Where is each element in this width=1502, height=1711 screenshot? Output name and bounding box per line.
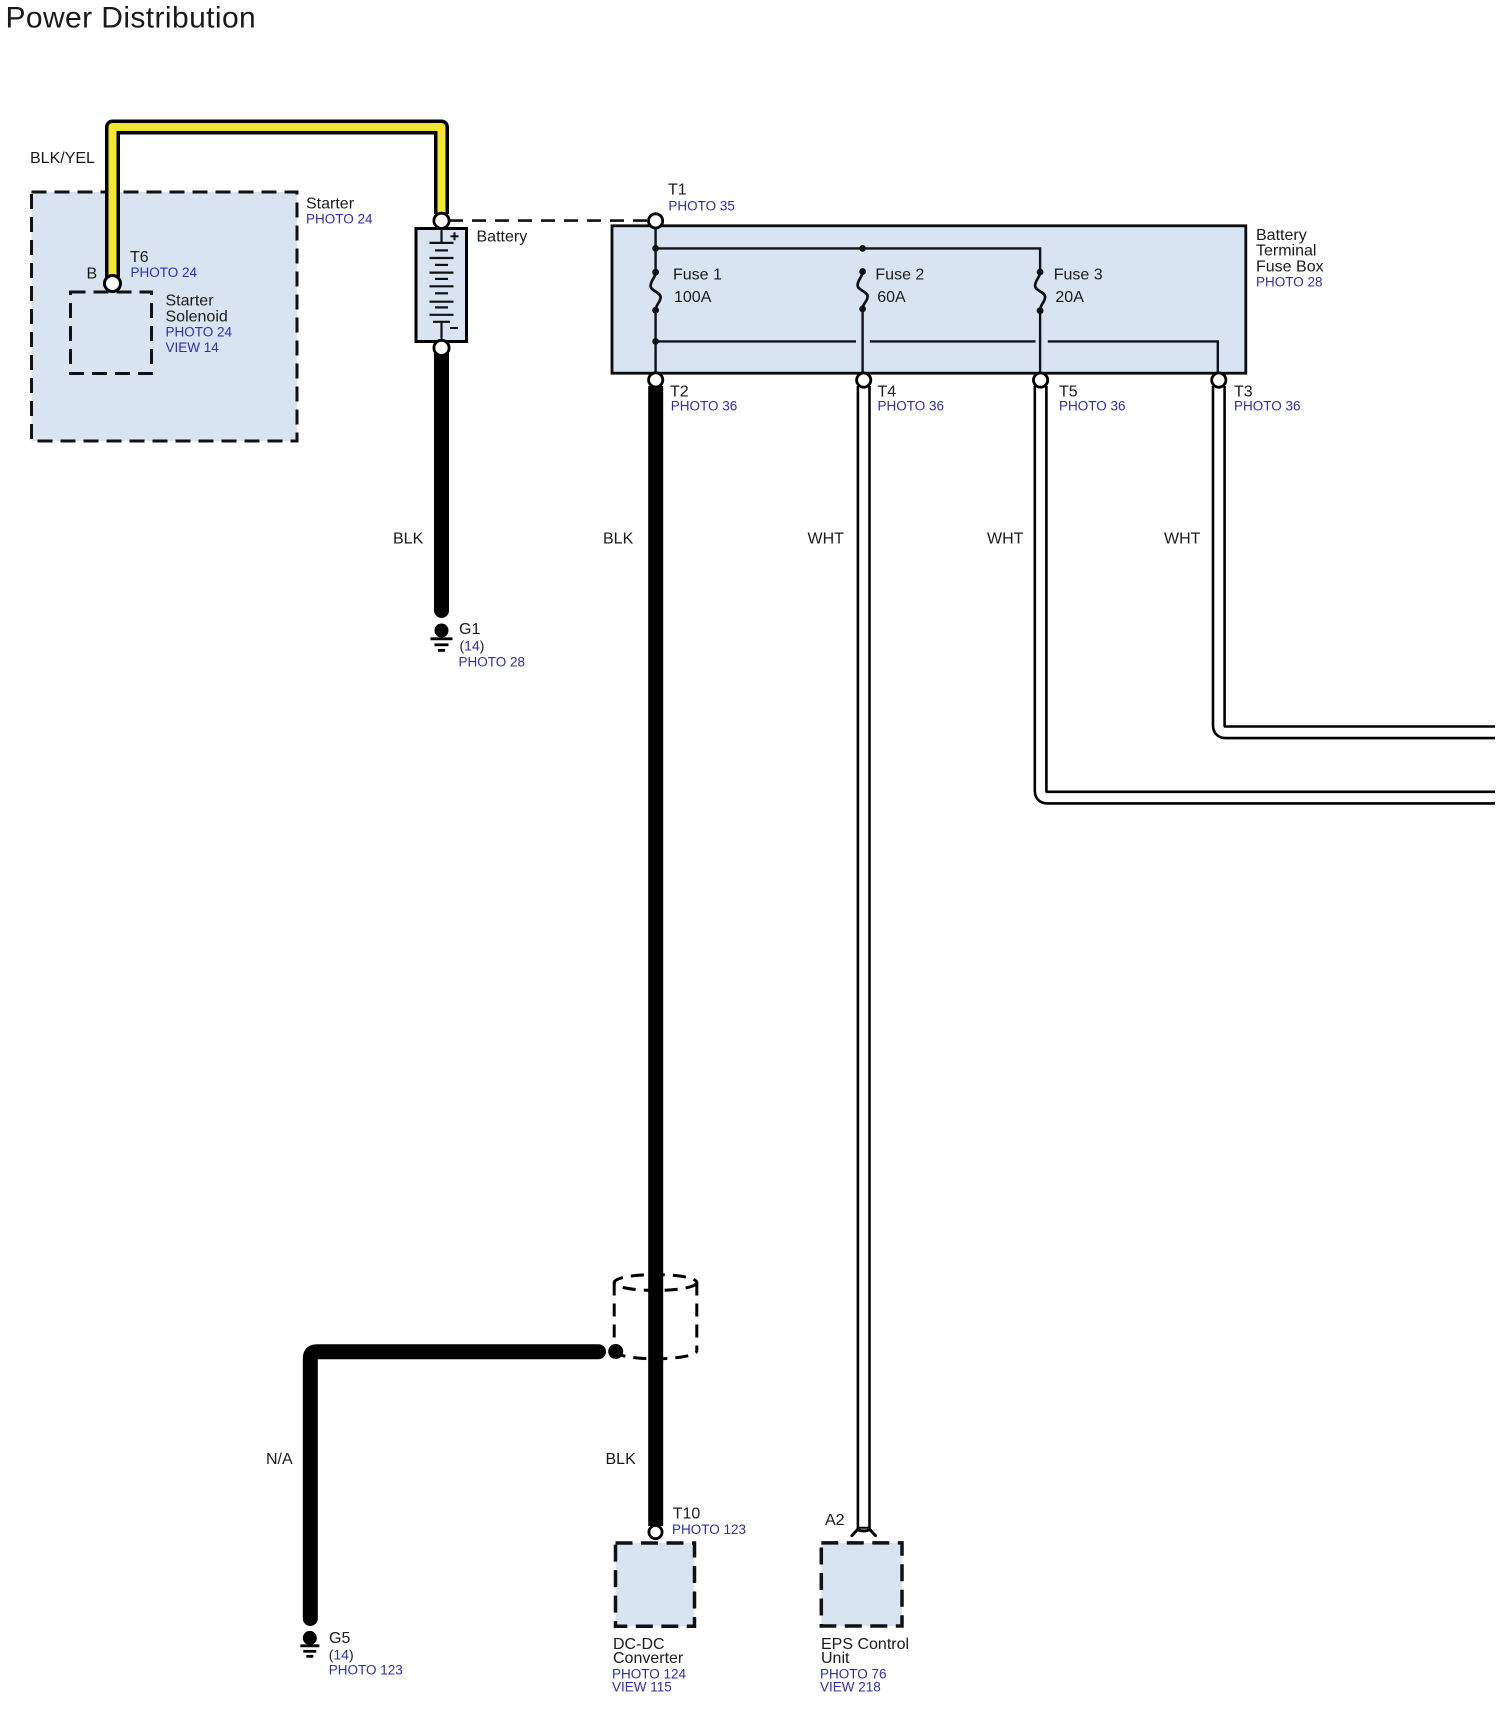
battery negative terminal circle xyxy=(434,340,449,355)
svg-text:B: B xyxy=(87,266,98,283)
fuse 1 element xyxy=(651,272,661,310)
svg-text:BLK/YEL: BLK/YEL xyxy=(30,150,95,167)
terminal B circle xyxy=(105,276,121,292)
svg-text:100A: 100A xyxy=(674,289,712,306)
fuse 3 element xyxy=(1035,272,1045,311)
terminal T5 circle xyxy=(1034,373,1048,387)
wire BLK battery negative to G1 xyxy=(434,352,449,611)
wire fuse1 bottom to T2 xyxy=(654,310,656,373)
svg-text:WHT: WHT xyxy=(1164,531,1201,548)
fuse3 wire bottom xyxy=(1039,311,1041,373)
wire dashed battery to T1 xyxy=(449,219,650,222)
terminal T2 circle xyxy=(649,373,663,387)
battery box xyxy=(416,229,467,342)
svg-text:PHOTO 123: PHOTO 123 xyxy=(672,1522,746,1537)
fuse 2 element xyxy=(858,272,868,309)
svg-text:PHOTO 24: PHOTO 24 xyxy=(166,325,233,340)
battery minus sign xyxy=(450,327,458,329)
ground G5 xyxy=(300,1631,319,1656)
svg-text:N/A: N/A xyxy=(266,1451,293,1468)
terminal T4 circle xyxy=(857,373,871,387)
svg-text:Starter: Starter xyxy=(306,195,355,212)
junction dot at cylinder xyxy=(608,1344,623,1359)
svg-text:PHOTO 35: PHOTO 35 xyxy=(668,198,735,213)
DC-DC converter box (dashed) xyxy=(616,1543,695,1626)
wire BLK T2 down to T10 xyxy=(648,386,663,1526)
junction dots xyxy=(652,245,1043,345)
svg-text:Terminal: Terminal xyxy=(1256,243,1316,260)
connector cylinder (dashed) xyxy=(614,1275,697,1359)
wire WHT T4 down to A2 xyxy=(857,386,871,1529)
svg-text:BLK: BLK xyxy=(603,531,634,548)
terminal T10 circle xyxy=(649,1526,662,1539)
svg-text:A2: A2 xyxy=(825,1512,845,1529)
svg-text:VIEW 14: VIEW 14 xyxy=(166,340,220,355)
bottom bus wire segment 2 xyxy=(870,340,1036,342)
svg-text:Starter: Starter xyxy=(166,293,215,310)
svg-text:PHOTO 36: PHOTO 36 xyxy=(1234,399,1301,414)
starter solenoid box (dashed) xyxy=(71,292,152,374)
wire BLK/YEL (yellow core) xyxy=(113,127,442,277)
svg-text:PHOTO 123: PHOTO 123 xyxy=(329,1663,403,1678)
svg-text:PHOTO 28: PHOTO 28 xyxy=(1256,274,1323,289)
svg-text:Fuse 2: Fuse 2 xyxy=(875,266,924,283)
svg-text:T6: T6 xyxy=(130,249,149,266)
svg-text:VIEW 218: VIEW 218 xyxy=(820,1680,881,1695)
svg-text:Battery: Battery xyxy=(477,229,528,246)
fuse2 wire bottom xyxy=(861,309,863,373)
svg-text:PHOTO 36: PHOTO 36 xyxy=(878,399,945,414)
battery plates xyxy=(430,229,454,342)
top bus wire xyxy=(656,248,1041,271)
connector A2 end xyxy=(852,1530,876,1536)
svg-text:Solenoid: Solenoid xyxy=(166,309,228,326)
wire N/A horizontal xyxy=(310,1352,598,1619)
svg-text:60A: 60A xyxy=(877,289,906,306)
svg-text:G5: G5 xyxy=(329,1630,350,1647)
svg-text:PHOTO 36: PHOTO 36 xyxy=(1059,399,1126,414)
svg-text:PHOTO 28: PHOTO 28 xyxy=(459,655,526,670)
svg-text:PHOTO 36: PHOTO 36 xyxy=(671,399,738,414)
svg-text:(14): (14) xyxy=(329,1647,354,1663)
svg-text:Power Distribution: Power Distribution xyxy=(6,2,257,35)
svg-text:Unit: Unit xyxy=(821,1650,850,1667)
terminal T1 circle xyxy=(649,214,663,228)
wire WHT T3 to right edge xyxy=(1219,386,1495,732)
svg-text:BLK: BLK xyxy=(393,531,424,548)
terminal T3 circle xyxy=(1212,373,1226,387)
svg-text:Fuse Box: Fuse Box xyxy=(1256,258,1324,275)
svg-text:(14): (14) xyxy=(460,638,485,654)
bottom bus wire segment 1 xyxy=(656,340,856,342)
wire WHT T5 to right edge xyxy=(1041,386,1495,798)
svg-text:BLK: BLK xyxy=(606,1451,637,1468)
starter unit box (dashed) xyxy=(32,192,298,441)
svg-text:PHOTO 24: PHOTO 24 xyxy=(131,265,198,280)
svg-text:T10: T10 xyxy=(673,1506,701,1523)
EPS control unit box (dashed) xyxy=(821,1543,902,1626)
battery plus sign xyxy=(451,232,459,240)
battery positive terminal circle xyxy=(434,213,449,228)
svg-text:WHT: WHT xyxy=(808,531,845,548)
ground G1 xyxy=(431,624,453,651)
svg-text:WHT: WHT xyxy=(987,531,1024,548)
svg-text:PHOTO 24: PHOTO 24 xyxy=(306,212,373,227)
svg-text:G1: G1 xyxy=(459,621,480,638)
svg-text:Battery: Battery xyxy=(1256,227,1307,244)
svg-text:Converter: Converter xyxy=(613,1650,684,1667)
svg-text:20A: 20A xyxy=(1055,289,1084,306)
wire BLK/YEL (black outline) xyxy=(113,127,442,277)
wire T1 to fuse1 top xyxy=(654,228,656,272)
svg-text:Fuse 3: Fuse 3 xyxy=(1054,266,1103,283)
svg-text:T1: T1 xyxy=(668,182,687,199)
battery terminal fuse box xyxy=(612,226,1246,373)
bottom bus wire segment 3 to T3 xyxy=(1048,341,1218,373)
svg-text:VIEW 115: VIEW 115 xyxy=(612,1680,672,1695)
svg-text:Fuse 1: Fuse 1 xyxy=(673,266,722,283)
